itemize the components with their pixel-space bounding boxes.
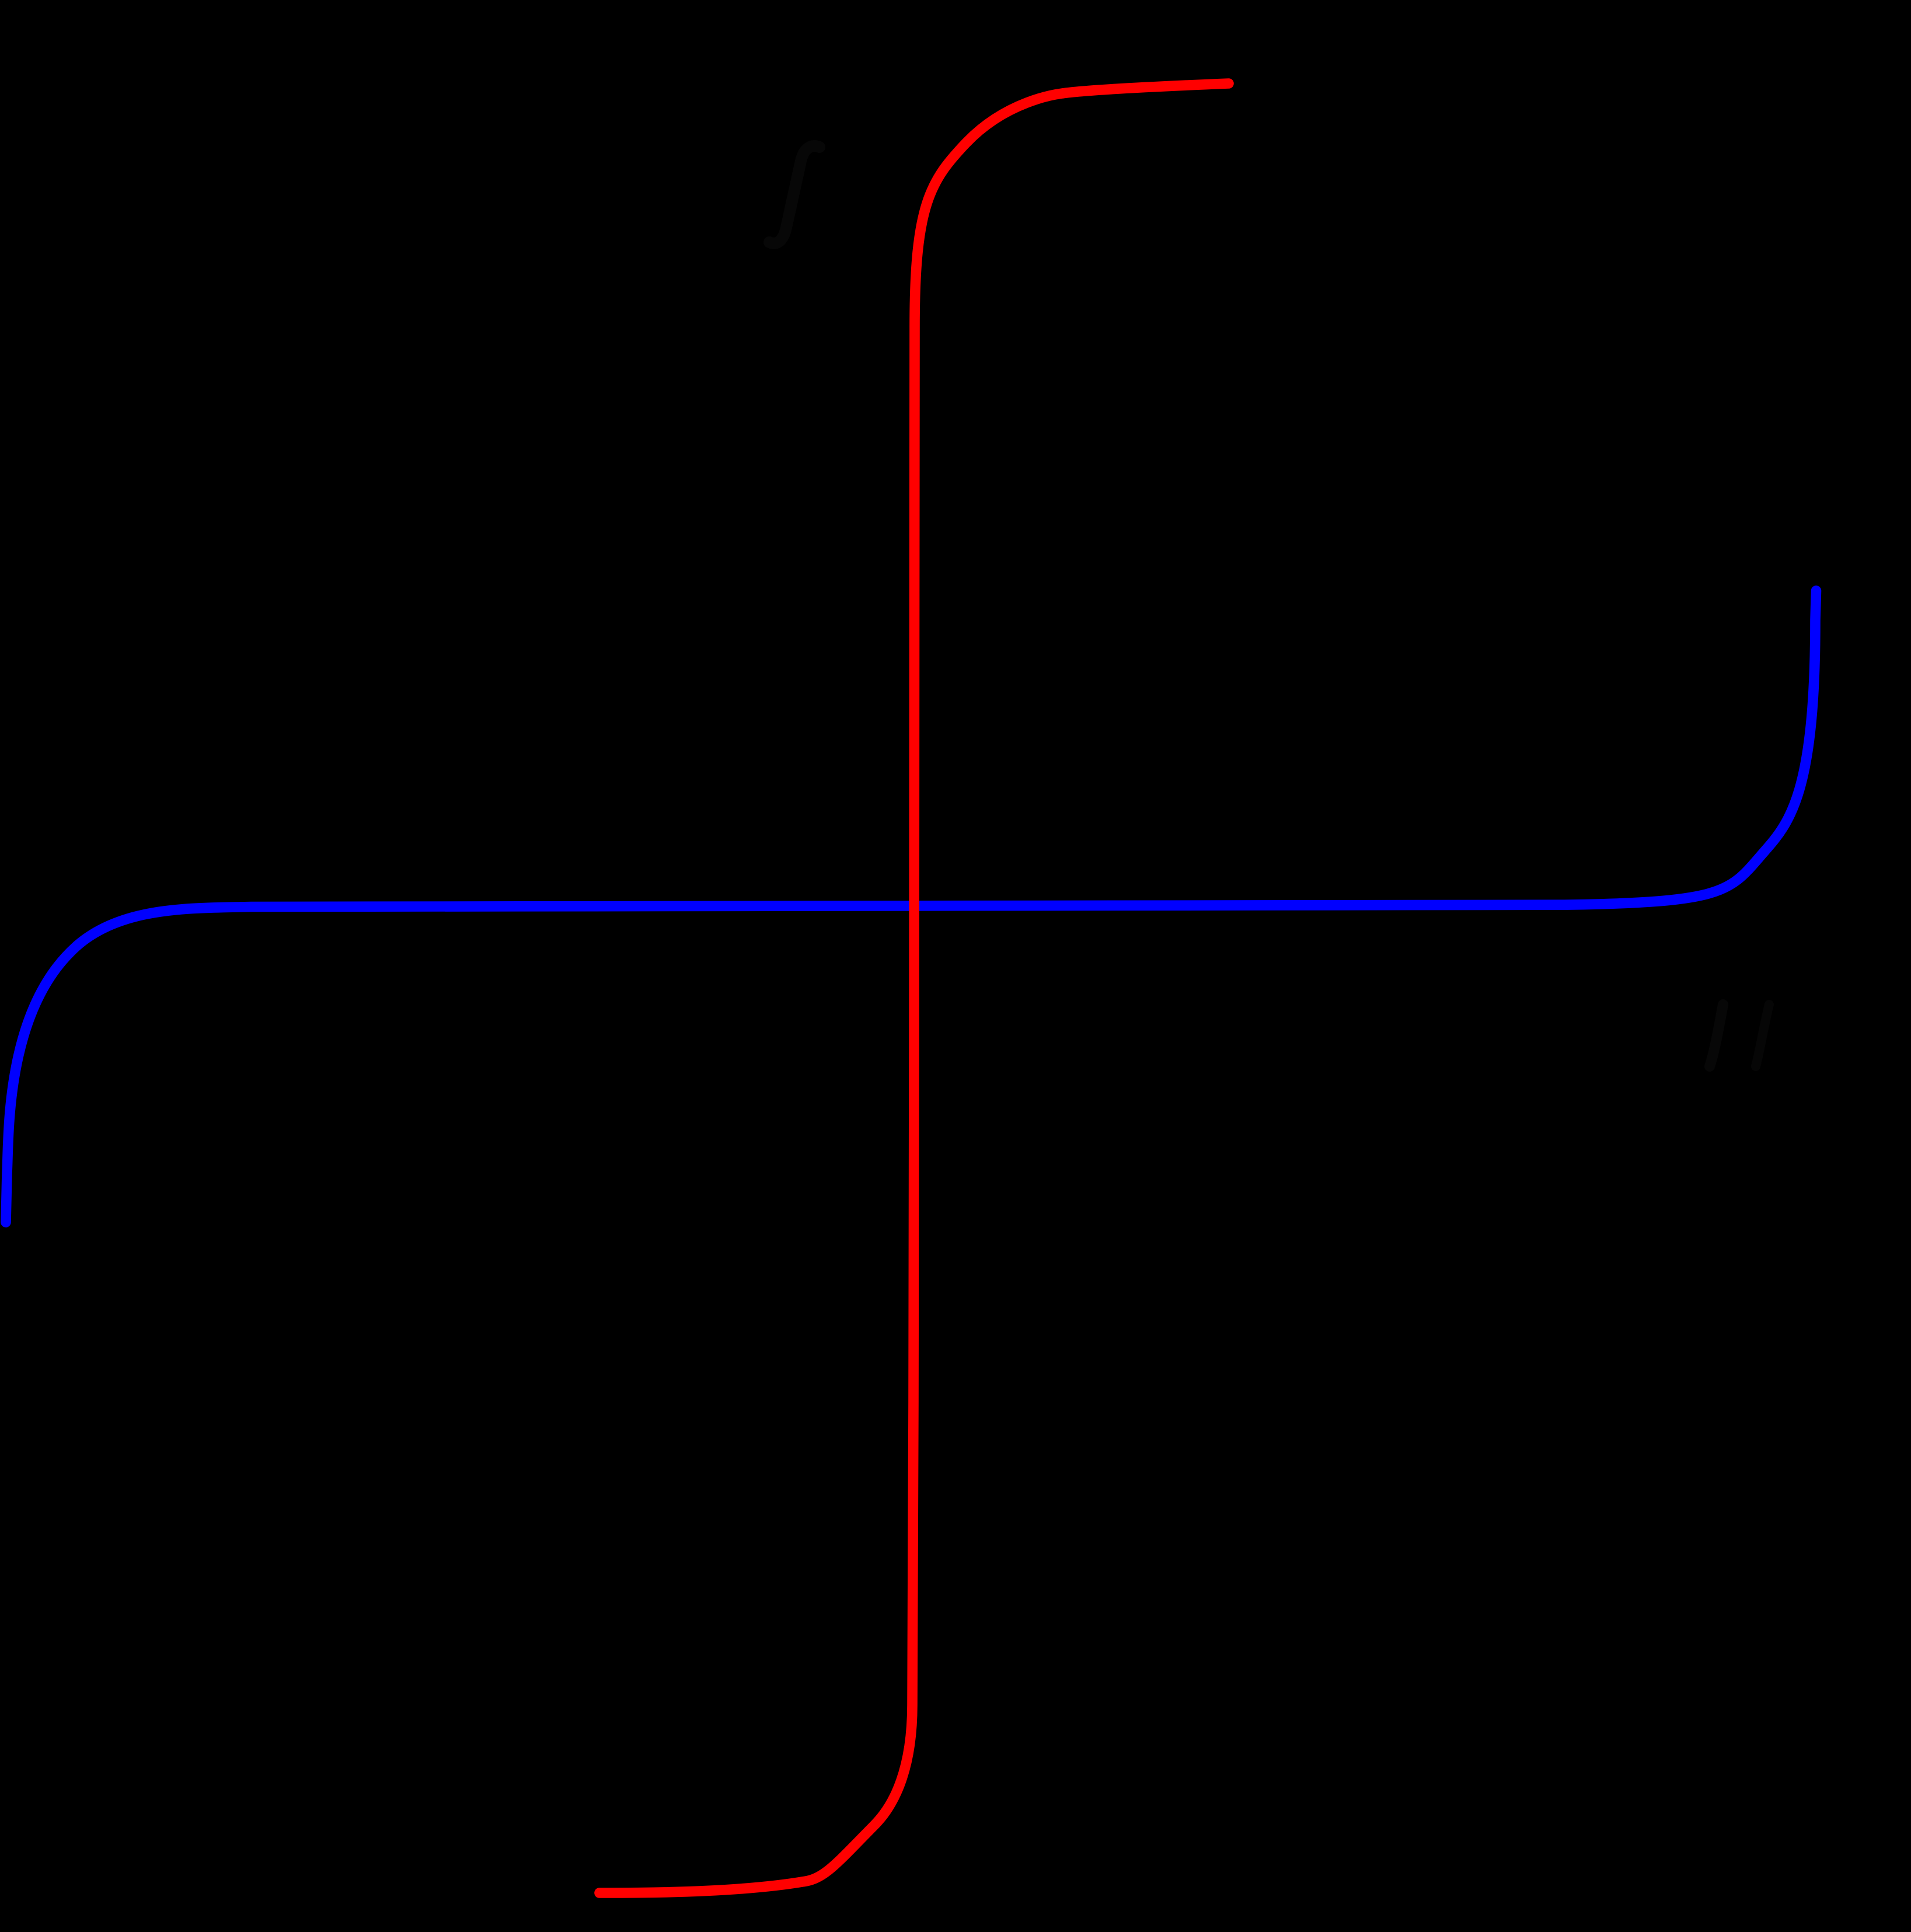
- label f^-1 (faint italic strokes near blue curve): [1710, 1005, 1723, 1066]
- label f (faint italic glyph near red curve): [769, 146, 820, 243]
- red curve: inverse function (steep): [599, 83, 1229, 1893]
- blue curve: function f (flat sigmoid): [6, 591, 1816, 1222]
